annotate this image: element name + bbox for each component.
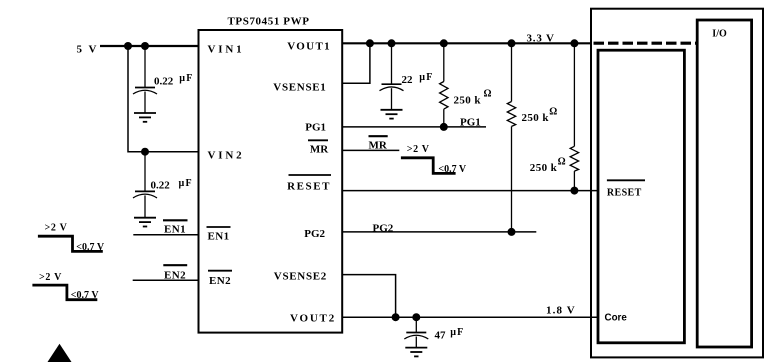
svg-text:3.3 V: 3.3 V	[527, 33, 555, 45]
pin MR (overbar)	[308, 140, 329, 155]
capacitor C4 47uF	[404, 317, 428, 347]
junction dot PG2/R2	[508, 228, 516, 236]
wire PG2 net	[342, 231, 536, 233]
svg-text:RESET: RESET	[607, 188, 642, 199]
wire VOUT2 1.8V net	[342, 316, 598, 318]
svg-text:TPS70451 PWP: TPS70451 PWP	[227, 16, 309, 28]
op-amp U1 TPS70451 IC box	[199, 30, 343, 333]
svg-text:µF: µF	[179, 73, 193, 84]
svg-text:EN1: EN1	[208, 231, 230, 243]
svg-text:EN2: EN2	[164, 269, 186, 281]
svg-text:PG1: PG1	[305, 122, 326, 134]
svg-text:Ω: Ω	[549, 107, 557, 118]
ground for C2	[134, 218, 156, 227]
note marker triangle	[48, 344, 72, 362]
junction dot on 5V rail (right, C1 tap)	[141, 42, 149, 50]
wire VOUT1 3.3V rail	[342, 42, 591, 44]
svg-text:<0.7 V: <0.7 V	[76, 242, 105, 253]
svg-text:µF: µF	[450, 327, 464, 338]
svg-text:>2 V: >2 V	[39, 272, 62, 283]
pin EN2 (overbar)	[208, 271, 232, 287]
junction dot on 5V rail (left)	[124, 42, 132, 50]
wire MR net	[342, 149, 399, 151]
wire 5V rail to VIN1	[100, 45, 199, 47]
svg-text:Core: Core	[605, 312, 628, 323]
net label EN1 (overbar)	[163, 220, 188, 235]
svg-text:PG2: PG2	[304, 228, 325, 240]
value label C3 22 uF	[402, 72, 434, 86]
value label C1 0.22 uF	[154, 73, 194, 88]
wire vertical 5V to VIN2	[128, 46, 199, 152]
svg-text:I/O: I/O	[712, 28, 727, 39]
junction dot C4/VOUT2	[412, 313, 420, 321]
wire VSENSE2 net	[342, 275, 395, 318]
svg-text:VOUT1: VOUT1	[287, 40, 331, 52]
junction dot on VIN2 wire (C2 tap)	[141, 148, 149, 156]
ground for C3	[381, 110, 403, 119]
svg-text:EN1: EN1	[164, 223, 186, 235]
processor core box	[598, 50, 684, 343]
capacitor C2 0.22uF	[133, 152, 157, 218]
svg-text:MR: MR	[310, 144, 329, 156]
junction dot R2/rail	[508, 39, 516, 47]
pin EN1 (overbar)	[207, 227, 231, 243]
processor outer box	[591, 9, 763, 358]
svg-text:EN2: EN2	[209, 275, 231, 287]
capacitor C3 22uF	[380, 43, 404, 110]
svg-text:µF: µF	[419, 72, 433, 83]
EN2 input step waveform	[32, 285, 97, 300]
svg-text:VIN1: VIN1	[208, 44, 245, 56]
resistor R1 250k	[440, 43, 448, 127]
pin RESET (overbar)	[287, 175, 331, 192]
svg-text:>2 V: >2 V	[407, 144, 430, 155]
svg-text:250 k: 250 k	[454, 94, 482, 106]
wire EN2 net	[133, 279, 199, 281]
ground for C4	[405, 348, 427, 357]
svg-text:250 k: 250 k	[522, 112, 550, 124]
value label C4 47 uF	[435, 327, 465, 341]
svg-text:47: 47	[435, 329, 447, 341]
svg-text:µF: µF	[179, 178, 193, 189]
svg-text:5 V: 5 V	[77, 44, 99, 56]
svg-text:>2 V: >2 V	[45, 223, 68, 234]
svg-text:0.22: 0.22	[151, 180, 171, 192]
junction dot C3/rail	[388, 39, 396, 47]
MR input step waveform	[401, 158, 456, 174]
wire dashed 3.3V into I/O	[594, 42, 697, 45]
value label C2 0.22 uF	[151, 178, 193, 192]
svg-text:1.8 V: 1.8 V	[546, 305, 576, 317]
wire PG1 net	[342, 126, 486, 128]
wire EN1 net	[133, 234, 198, 236]
value label R1 250 k ohm	[454, 89, 492, 107]
junction dot PG1/R1	[440, 123, 448, 131]
label RESET (overbar) inside core	[607, 180, 645, 198]
value label R3 250 k ohm	[530, 156, 566, 174]
junction dot VSENSE1/rail	[366, 39, 374, 47]
wire VSENSE1 to rail	[342, 43, 370, 83]
capacitor C1 0.22uF	[133, 46, 157, 113]
svg-text:MR: MR	[369, 139, 388, 151]
value label R2 250 k ohm	[522, 107, 558, 125]
svg-text:VIN2: VIN2	[208, 150, 245, 162]
svg-text:PG1: PG1	[460, 117, 481, 129]
svg-text:VOUT2: VOUT2	[290, 313, 336, 325]
junction dot R1/rail	[440, 39, 448, 47]
EN1 input step waveform	[38, 236, 103, 251]
svg-text:<0.7 V: <0.7 V	[71, 290, 100, 301]
wire RESET net	[342, 190, 598, 192]
svg-text:Ω: Ω	[484, 89, 492, 100]
svg-text:VSENSE1: VSENSE1	[273, 82, 326, 94]
junction dot R3/rail	[570, 39, 578, 47]
svg-text:250 k: 250 k	[530, 162, 558, 174]
resistor R2 250k	[507, 43, 515, 232]
resistor R3 250k	[570, 43, 578, 190]
svg-text:22: 22	[402, 74, 414, 86]
svg-text:RESET: RESET	[287, 180, 331, 192]
net label MR (overbar)	[369, 136, 388, 151]
processor I/O box	[697, 20, 751, 347]
svg-text:VSENSE2: VSENSE2	[274, 270, 327, 282]
net label EN2 (overbar)	[163, 265, 187, 281]
svg-text:PG2: PG2	[373, 223, 394, 235]
junction dot RESET/R3	[570, 187, 578, 195]
ground for C1	[134, 113, 156, 122]
svg-text:0.22: 0.22	[154, 76, 174, 88]
junction dot VSENSE2/VOUT2	[392, 313, 400, 321]
svg-text:Ω: Ω	[558, 156, 566, 167]
svg-text:<0.7 V: <0.7 V	[438, 164, 467, 175]
